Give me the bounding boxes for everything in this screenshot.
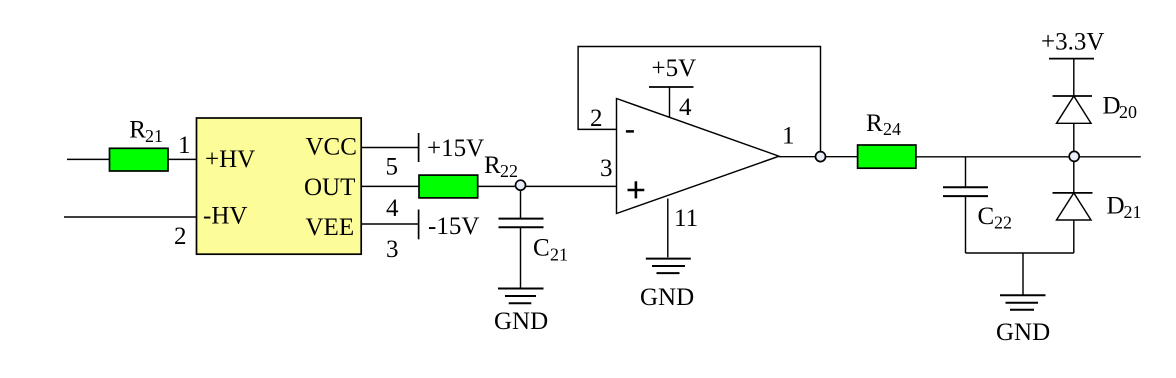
svg-text:GND: GND (996, 319, 1050, 346)
svg-text:3: 3 (386, 236, 399, 263)
svg-text:-HV: -HV (203, 203, 247, 230)
svg-text:R: R (866, 110, 883, 137)
svg-text:1: 1 (782, 123, 795, 150)
svg-text:4: 4 (679, 94, 692, 121)
svg-text:D: D (1107, 193, 1125, 220)
svg-text:21: 21 (550, 244, 568, 264)
svg-text:VEE: VEE (306, 214, 355, 241)
svg-text:2: 2 (590, 105, 603, 132)
svg-text:VCC: VCC (306, 134, 357, 161)
svg-text:GND: GND (640, 284, 694, 311)
svg-text:24: 24 (883, 119, 901, 139)
svg-text:R: R (129, 116, 146, 143)
svg-text:OUT: OUT (304, 174, 355, 201)
svg-text:20: 20 (1119, 102, 1137, 122)
svg-text:22: 22 (500, 161, 518, 181)
svg-text:5: 5 (386, 154, 399, 181)
svg-text:D: D (1103, 92, 1121, 119)
svg-text:R: R (484, 152, 501, 179)
svg-text:C: C (533, 234, 550, 261)
svg-text:21: 21 (145, 126, 163, 146)
svg-text:3: 3 (600, 155, 613, 182)
svg-text:+15V: +15V (427, 135, 484, 162)
svg-text:GND: GND (494, 308, 548, 335)
svg-text:11: 11 (674, 205, 698, 232)
svg-text:1: 1 (178, 132, 191, 159)
svg-text:-15V: -15V (428, 213, 479, 240)
svg-text:+HV: +HV (205, 146, 255, 173)
svg-text:+5V: +5V (652, 55, 697, 82)
svg-text:22: 22 (994, 213, 1012, 233)
svg-text:+3.3V: +3.3V (1041, 29, 1104, 56)
svg-text:21: 21 (1124, 202, 1142, 222)
svg-text:4: 4 (386, 195, 399, 222)
svg-text:2: 2 (174, 223, 187, 250)
svg-text:C: C (978, 203, 995, 230)
